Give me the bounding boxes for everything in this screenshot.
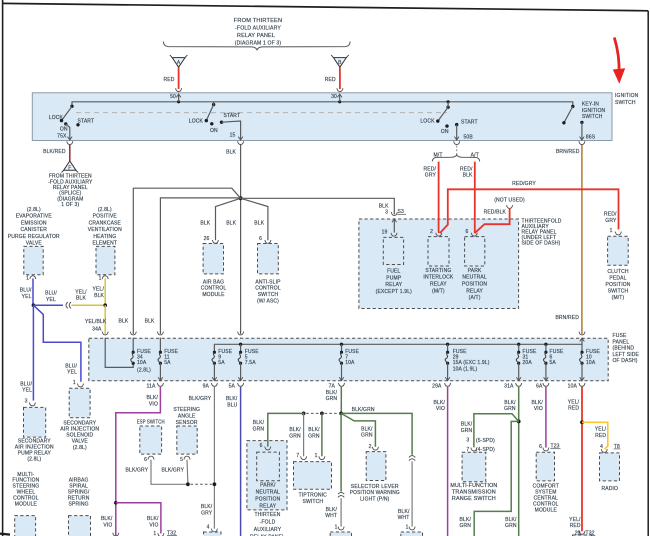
svg-text:YEL: YEL <box>67 370 77 376</box>
svg-text:START: START <box>78 119 95 125</box>
svg-text:SPRING: SPRING <box>69 501 89 507</box>
svg-text:1: 1 <box>73 380 76 386</box>
svg-text:FUSE: FUSE <box>613 333 627 339</box>
svg-text:BLK/: BLK/ <box>460 517 472 523</box>
node: blue junction <box>32 303 36 307</box>
svg-text:RED/: RED/ <box>460 166 473 172</box>
svg-text:10A: 10A <box>345 360 355 366</box>
fuse 31 20A <box>504 344 537 389</box>
svg-text:IGNITION: IGNITION <box>615 93 639 99</box>
svg-text:86S: 86S <box>586 134 596 140</box>
fuse bus bar <box>214 338 582 352</box>
svg-text:RED/: RED/ <box>423 166 436 172</box>
svg-text:M/T: M/T <box>433 152 442 158</box>
svg-text:CENTRAL: CENTRAL <box>534 496 558 502</box>
svg-text:RELAY: RELAY <box>385 282 402 288</box>
svg-text:GRN: GRN <box>308 433 320 439</box>
wire BLK/GRN circuit 7A <box>340 387 342 414</box>
svg-text:VENTILATION: VENTILATION <box>88 227 122 233</box>
svg-text:BLK/GRY: BLK/GRY <box>161 467 184 473</box>
svg-text:LIGHT (P/N): LIGHT (P/N) <box>360 496 390 502</box>
svg-text:ELEMENT: ELEMENT <box>92 241 117 247</box>
svg-text:NEUTRAL: NEUTRAL <box>462 275 486 281</box>
svg-text:75X: 75X <box>57 133 67 139</box>
svg-text:WHT: WHT <box>325 513 337 519</box>
svg-text:GRY: GRY <box>201 511 213 517</box>
wire BLK/VIO branch to T32 pin 1 <box>116 503 161 534</box>
splice S3 entry into panel <box>391 212 397 215</box>
svg-text:EMISSION: EMISSION <box>21 220 47 226</box>
svg-text:ANTI-SLIP: ANTI-SLIP <box>255 279 281 285</box>
wire YEL/RED branch to radio pin 4 <box>582 422 608 449</box>
node: connector A entry on bus <box>177 100 180 103</box>
svg-text:5A: 5A <box>218 360 225 366</box>
svg-text:CANISTER: CANISTER <box>21 227 48 233</box>
relay: park neutral position relay, pin 6 <box>471 233 477 236</box>
wire RED from connector B <box>339 67 341 89</box>
svg-text:BRN/RED: BRN/RED <box>555 315 579 321</box>
svg-text:RELAY: RELAY <box>466 288 483 294</box>
svg-text:(A/T): (A/T) <box>469 295 481 301</box>
svg-text:SELECTOR LEVER: SELECTOR LEVER <box>351 484 399 490</box>
svg-text:SECONDARY: SECONDARY <box>63 420 96 426</box>
relay: starting interlock relay, pin 2 <box>436 233 442 236</box>
svg-text:VIO: VIO <box>149 402 158 408</box>
svg-text:BLK/RED: BLK/RED <box>43 149 66 155</box>
svg-text:7.5A: 7.5A <box>245 360 256 366</box>
svg-text:6: 6 <box>144 457 147 463</box>
svg-text:RED/GRY: RED/GRY <box>512 181 536 187</box>
svg-text:50: 50 <box>170 94 176 100</box>
connector B (triangle to relay panel) <box>331 55 349 67</box>
svg-text:BLU/: BLU/ <box>45 291 57 297</box>
svg-text:BLK: BLK <box>76 296 86 302</box>
svg-text:GRN: GRN <box>326 396 338 402</box>
wire YEL/BLK horizontal <box>72 304 106 306</box>
svg-text:BLK/: BLK/ <box>147 516 159 522</box>
wire BLK to splice S3 <box>241 198 395 214</box>
svg-text:AIR INJECTION: AIR INJECTION <box>60 427 99 433</box>
secondary air injection pump relay box <box>24 407 46 437</box>
splice connector F (triangle) <box>62 161 79 173</box>
svg-text:GRN: GRN <box>253 427 265 433</box>
relay: fuel pump relay, pin 19 <box>391 233 397 236</box>
svg-text:VIO: VIO <box>103 522 112 528</box>
svg-text:THIRTEEN: THIRTEEN <box>254 512 280 518</box>
svg-text:IGNITION: IGNITION <box>582 108 606 114</box>
page border left <box>2 0 4 536</box>
wire BLK to anti-slip control switch <box>241 198 268 240</box>
wire BLK/GRN to selector lever warning light pin 2 <box>341 413 375 446</box>
wire BLK/GRY from ESP switch <box>151 460 186 485</box>
wire RED/BLK (A/T) to park neutral position relay pin 6 <box>474 162 476 234</box>
svg-text:BLU: BLU <box>227 403 237 409</box>
svg-text:MULTI-FUNCTION: MULTI-FUNCTION <box>450 483 497 489</box>
svg-text:BLK/GRY: BLK/GRY <box>189 396 212 402</box>
svg-text:LOCK: LOCK <box>189 119 204 125</box>
wire BLK/GRN to park neutral position relay <box>268 413 304 446</box>
fuse 29 15A/10A <box>432 344 490 389</box>
fuse 34 10A (2.8L) <box>131 338 152 373</box>
ignition switch contact set 1 (LOCK/ON/START, M/T left) <box>49 105 94 141</box>
svg-text:AIR BAG: AIR BAG <box>203 279 224 285</box>
wire BLK/GRN to transmission range switch pins 3/7 <box>474 414 519 448</box>
svg-text:A/T: A/T <box>471 152 479 158</box>
svg-text:POSITION: POSITION <box>605 282 630 288</box>
svg-text:20A: 20A <box>523 360 533 366</box>
svg-text:MODULE: MODULE <box>202 292 225 298</box>
ignition switch contact set 2 (LOCK/ON/START, terminal 15) <box>189 102 243 140</box>
svg-text:YEL/: YEL/ <box>93 287 105 293</box>
svg-text:SIDE OF DASH): SIDE OF DASH) <box>522 241 561 247</box>
svg-text:GRN: GRN <box>461 428 473 434</box>
svg-text:SWITCH: SWITCH <box>302 499 323 505</box>
svg-text:RED/: RED/ <box>604 212 617 218</box>
selector lever position warning light box <box>366 452 386 481</box>
brace M/T - A/T <box>432 155 479 162</box>
svg-text:ANGLE: ANGLE <box>178 414 196 420</box>
svg-text:FUEL: FUEL <box>387 269 400 275</box>
svg-text:-FOLD: -FOLD <box>260 519 276 525</box>
svg-text:BLK/: BLK/ <box>434 400 446 406</box>
svg-text:1: 1 <box>335 524 338 530</box>
wire BLK/GRY circuit 9A <box>213 387 215 529</box>
svg-text:RED: RED <box>325 77 336 83</box>
svg-text:HEATING: HEATING <box>93 234 116 240</box>
svg-text:GRN: GRN <box>361 433 373 439</box>
svg-text:BLK/: BLK/ <box>504 400 516 406</box>
svg-text:POSITION: POSITION <box>462 282 487 288</box>
svg-text:(5-SPD): (5-SPD) <box>476 438 495 444</box>
svg-text:BLK/: BLK/ <box>253 420 265 426</box>
inline connector (( <box>66 302 71 308</box>
wire BLK to fuse 34 <box>133 188 240 334</box>
pcv heating element box <box>96 246 115 274</box>
svg-text:9A: 9A <box>203 384 210 390</box>
svg-text:29A: 29A <box>432 384 442 390</box>
wire BLU/YEL horizontal <box>33 304 63 306</box>
svg-text:EVAPORATIVE: EVAPORATIVE <box>16 214 53 220</box>
svg-text:5A: 5A <box>164 360 171 366</box>
wire YEL/BLK 34A to fuse panel <box>104 305 106 334</box>
svg-text:26: 26 <box>204 236 210 242</box>
svg-text:SYSTEM: SYSTEM <box>535 489 556 495</box>
terminal 50 entry arrow <box>176 94 181 97</box>
brace under label <box>163 42 350 51</box>
svg-text:GRN: GRN <box>505 523 517 529</box>
svg-text:19: 19 <box>382 230 388 236</box>
svg-text:VALVE: VALVE <box>26 241 43 247</box>
svg-text:BLK: BLK <box>145 319 155 325</box>
svg-text:6: 6 <box>259 236 262 242</box>
svg-text:10A: 10A <box>568 384 578 390</box>
svg-text:4: 4 <box>207 525 210 531</box>
wire RED from connector A <box>178 67 180 89</box>
svg-text:RADIO: RADIO <box>602 486 619 492</box>
svg-text:YEL: YEL <box>22 388 32 394</box>
svg-text:(2.8L): (2.8L) <box>27 207 41 213</box>
svg-text:PARK: PARK <box>468 268 482 274</box>
svg-text:VIO: VIO <box>436 406 445 412</box>
evap valve box <box>24 246 43 274</box>
svg-text:ON: ON <box>60 127 68 133</box>
svg-text:CRANKCASE: CRANKCASE <box>89 220 122 226</box>
wire BLK/GRN loop branch <box>474 421 519 536</box>
svg-text:SWITCH: SWITCH <box>258 292 279 298</box>
svg-text:1: 1 <box>26 275 29 281</box>
svg-text:BLK/: BLK/ <box>147 395 159 401</box>
wire BLK/GRN circuit 31A <box>518 387 520 536</box>
svg-text:RED: RED <box>595 433 606 439</box>
svg-text:(2.8L): (2.8L) <box>27 457 41 463</box>
terminal 86S exit cup <box>579 141 585 144</box>
svg-text:YEL/BLK: YEL/BLK <box>85 319 107 325</box>
svg-text:BLK: BLK <box>118 319 128 325</box>
svg-text:VALVE: VALVE <box>72 439 89 445</box>
fuse 10 10A <box>568 344 601 389</box>
svg-text:GRN: GRN <box>289 433 301 439</box>
fuse 6 5A <box>536 344 564 389</box>
svg-text:BLK/: BLK/ <box>226 396 238 402</box>
svg-text:BRN/RED: BRN/RED <box>556 149 580 155</box>
wire BLK/BLU circuit 5A <box>240 387 242 536</box>
svg-text:BLK/: BLK/ <box>461 422 473 428</box>
svg-text:GRN: GRN <box>459 523 471 529</box>
node: green splice dots + dashed links <box>339 412 343 416</box>
wire BRN/RED ignition to fuse panel <box>581 145 583 334</box>
svg-text:4: 4 <box>600 444 603 450</box>
svg-text:BLK/GRN: BLK/GRN <box>352 407 375 413</box>
svg-text:6: 6 <box>465 229 468 235</box>
svg-text:BLK/: BLK/ <box>326 507 338 513</box>
svg-text:BLK/: BLK/ <box>531 400 543 406</box>
key-in ignition switch contact <box>562 102 605 141</box>
page border right <box>647 11 649 536</box>
svg-text:AUXILIARY: AUXILIARY <box>254 527 282 533</box>
svg-text:BLU/: BLU/ <box>20 288 32 294</box>
wire BLK main feed <box>240 145 242 334</box>
svg-text:POSITION WARNING: POSITION WARNING <box>350 490 400 496</box>
svg-text:50B: 50B <box>464 134 474 140</box>
svg-text:1: 1 <box>610 228 613 234</box>
svg-text:BLK/: BLK/ <box>101 516 113 522</box>
svg-text:YEL/: YEL/ <box>569 517 581 523</box>
svg-text:GRY: GRY <box>605 218 617 224</box>
ignition switch box <box>32 93 612 141</box>
svg-text:POSITION: POSITION <box>255 496 280 502</box>
wire RED/GRY to clutch pedal position switch <box>440 189 619 233</box>
svg-text:(NOT USED): (NOT USED) <box>494 198 525 204</box>
svg-text:STARTING: STARTING <box>425 268 451 274</box>
svg-text:(2.8L): (2.8L) <box>137 368 151 374</box>
svg-text:RED/BLK: RED/BLK <box>484 210 507 216</box>
svg-text:5A: 5A <box>550 360 557 366</box>
wire BLK/GRY from steering angle sensor <box>186 460 189 485</box>
evap valve pin 1 <box>30 276 36 279</box>
svg-text:RELAY PANEL: RELAY PANEL <box>237 33 275 39</box>
svg-text:1: 1 <box>315 453 318 459</box>
radio box <box>600 453 620 481</box>
svg-text:CONTROL: CONTROL <box>201 286 227 292</box>
svg-text:START: START <box>224 113 241 119</box>
fuse 11 5A <box>147 338 179 389</box>
svg-text:INTERLOCK: INTERLOCK <box>423 275 453 281</box>
fuse 5 7.5A <box>229 344 260 389</box>
svg-text:(2.8L): (2.8L) <box>98 207 112 213</box>
svg-text:3: 3 <box>25 398 28 404</box>
svg-text:LOCK: LOCK <box>49 115 64 121</box>
svg-text:COMFORT: COMFORT <box>533 483 559 489</box>
svg-text:RANGE SWITCH: RANGE SWITCH <box>452 496 496 502</box>
svg-text:ON: ON <box>441 129 449 135</box>
node: 11A junction <box>114 501 118 505</box>
svg-text:CLUTCH: CLUTCH <box>607 269 628 275</box>
svg-text:START: START <box>461 120 478 126</box>
svg-text:BLK: BLK <box>226 220 236 226</box>
svg-text:LEFT SIDE: LEFT SIDE <box>613 352 640 358</box>
node: 10A junction <box>580 420 584 424</box>
svg-text:PURGE REGULATOR: PURGE REGULATOR <box>8 234 60 240</box>
svg-text:10A: 10A <box>586 360 596 366</box>
svg-text:-FOLD AUXILIARY: -FOLD AUXILIARY <box>235 26 282 32</box>
multi-function transmission range switch box <box>462 452 486 482</box>
terminal 30 entry arrow <box>337 94 342 97</box>
svg-text:SOLENOID: SOLENOID <box>66 433 93 439</box>
fuse panel box <box>89 338 608 381</box>
svg-text:3: 3 <box>385 209 388 215</box>
svg-text:BLK: BLK <box>94 293 104 299</box>
svg-text:BLK/GRY: BLK/GRY <box>126 467 149 473</box>
svg-text:34A: 34A <box>92 327 102 333</box>
svg-text:RED: RED <box>568 406 579 412</box>
wire YEL/RED circuit 10A <box>581 387 583 531</box>
svg-text:SWITCH: SWITCH <box>608 289 629 295</box>
wire YEL/BLK from pcv element <box>104 278 106 305</box>
svg-text:2: 2 <box>369 444 372 450</box>
svg-text:YEL/: YEL/ <box>75 289 87 295</box>
svg-text:TIPTRONIC: TIPTRONIC <box>299 492 328 498</box>
svg-text:(BEHIND: (BEHIND <box>613 346 635 352</box>
terminal 15 exit cup <box>238 141 244 144</box>
svg-text:ESP SWITCH: ESP SWITCH <box>137 420 165 426</box>
svg-text:10A (1.9L): 10A (1.9L) <box>453 367 478 373</box>
svg-text:PANEL: PANEL <box>613 339 630 345</box>
svg-text:SENSOR: SENSOR <box>176 420 198 426</box>
svg-text:NEUTRAL: NEUTRAL <box>256 489 280 495</box>
wire BLU/YEL to secondary air injection pump relay <box>32 305 34 400</box>
svg-text:6: 6 <box>260 443 263 449</box>
svg-text:7A: 7A <box>329 384 336 390</box>
svg-text:KEY-IN: KEY-IN <box>582 102 599 108</box>
wire BLU/YEL to secondary air injection solenoid valve <box>33 305 81 382</box>
svg-text:BLK: BLK <box>254 220 264 226</box>
svg-text:YEL: YEL <box>46 297 56 303</box>
svg-text:A: A <box>177 60 181 66</box>
svg-text:MODULE: MODULE <box>15 501 38 507</box>
svg-text:YEL/: YEL/ <box>568 399 580 405</box>
svg-text:7: 7 <box>296 453 299 459</box>
svg-text:CONTROL: CONTROL <box>533 502 559 508</box>
svg-text:3: 3 <box>466 438 469 444</box>
svg-text:15A (EXC 1.9L): 15A (EXC 1.9L) <box>453 360 490 366</box>
wire 34A feed inside panel <box>105 338 133 367</box>
svg-text:VIO: VIO <box>534 406 543 412</box>
terminal 50B exit cup <box>454 141 460 144</box>
svg-text:BLK/: BLK/ <box>289 427 301 433</box>
svg-text:BLK/: BLK/ <box>361 426 373 432</box>
svg-text:PARK/: PARK/ <box>260 482 276 488</box>
svg-text:(M/T): (M/T) <box>432 288 445 294</box>
svg-text:2: 2 <box>430 229 433 235</box>
svg-text:GRN: GRN <box>504 406 516 412</box>
wire BLK to air bag control module <box>216 198 241 240</box>
svg-text:RELAY: RELAY <box>430 282 447 288</box>
svg-text:GRY: GRY <box>425 173 437 179</box>
svg-text:BLK/: BLK/ <box>201 504 213 510</box>
svg-text:6A: 6A <box>536 384 543 390</box>
svg-text:BLK: BLK <box>200 220 210 226</box>
ignition switch contact set 3 (LOCK/ON/START, terminal 50B) <box>420 100 477 140</box>
svg-text:1 OF 3): 1 OF 3) <box>61 202 79 208</box>
ignition switch mechanical link (dashed) <box>76 112 447 114</box>
node: yellow junction <box>103 303 107 307</box>
svg-text:BLK/: BLK/ <box>505 517 517 523</box>
svg-text:F: F <box>68 165 71 171</box>
svg-text:ON: ON <box>210 128 218 134</box>
wire RED/BLK stub from (not used) to pin 6 <box>475 208 510 233</box>
node: BLK distribution junction <box>239 196 243 200</box>
svg-text:MODULE: MODULE <box>535 508 558 514</box>
wire: 30/50 feed bus inside ignition switch <box>72 102 573 107</box>
svg-text:11A: 11A <box>147 384 156 390</box>
svg-text:BLK: BLK <box>226 150 236 156</box>
svg-text:PUMP: PUMP <box>386 275 402 281</box>
tiptronic switch box <box>294 462 332 490</box>
svg-text:10A: 10A <box>137 360 147 366</box>
svg-text:BLK/: BLK/ <box>326 390 338 396</box>
svg-text:YEL/: YEL/ <box>595 427 607 433</box>
svg-text:STEERING: STEERING <box>173 407 200 413</box>
secondary air injection solenoid valve box <box>69 388 90 418</box>
pcv pin 1 <box>102 276 108 279</box>
svg-text:6: 6 <box>539 444 542 450</box>
node: bus taps <box>239 343 242 346</box>
svg-text:WHT: WHT <box>398 515 410 521</box>
wire BLK inside panel to fuel pump relay <box>393 219 395 233</box>
svg-text:RELAY: RELAY <box>259 503 276 509</box>
svg-text:SWITCH: SWITCH <box>615 100 636 106</box>
svg-text:BLK/: BLK/ <box>398 509 410 515</box>
annotation: hand-drawn red arrow <box>614 38 619 75</box>
svg-text:1: 1 <box>99 275 102 281</box>
node: connector B entry on bus <box>338 100 341 103</box>
wire RED/GRY (M/T) to starting interlock relay pin 2 <box>438 162 440 233</box>
svg-text:CONTROL: CONTROL <box>255 286 281 292</box>
svg-text:TRANSMISSION: TRANSMISSION <box>452 489 496 495</box>
svg-text:1: 1 <box>153 531 156 536</box>
svg-text:POSITIVE: POSITIVE <box>93 214 118 220</box>
svg-text:5A: 5A <box>229 384 236 390</box>
wire BLK/VIO circuit 6A to comfort system module <box>545 387 547 448</box>
svg-text:RED: RED <box>163 77 174 83</box>
comfort system central control module box <box>536 452 554 481</box>
svg-text:(DIAGRAM 1 OF 3): (DIAGRAM 1 OF 3) <box>235 41 282 47</box>
svg-text:VIO: VIO <box>149 522 158 528</box>
wire BLK/VIO circuit 11A <box>116 387 161 536</box>
svg-text:(EXCEPT 1.9L): (EXCEPT 1.9L) <box>376 289 413 295</box>
anti-slip control switch, pin 6 <box>265 240 271 243</box>
svg-text:RED: RED <box>570 523 581 529</box>
